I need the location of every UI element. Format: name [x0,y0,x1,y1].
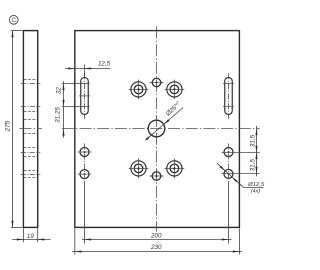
centre hole &#216;25 [148,120,165,137]
dimension 275 (left height) [12,31,14,228]
dimension 19 (side view width) [22,228,24,242]
extension lines down to 200 dim [84,181,86,244]
side view hole centerline y=174.5 [21,174,41,176]
side view hidden hole edge line y=177.5 [24,177,37,179]
side view hole centerline y=83.5 [21,83,41,85]
side view outline [23,31,37,228]
svg-text:12,5: 12,5 [98,60,111,67]
counterbored mounting hole at (174.4,168.4) with centermark [167,161,182,176]
side view main horizontal centerline [20,128,42,130]
front view plate outline [75,31,240,228]
right slot [225,77,233,114]
side view hidden hole edge line y=79.5 [24,79,37,81]
dimension 200 (bottom) [82,239,231,241]
svg-text:200: 200 [150,232,162,239]
side view hidden hole edge line y=147.5 [24,147,37,149]
side view hole centerline y=152.5 [21,152,41,154]
main vertical centerline [156,27,158,232]
dimension chain 32 / 31,25 (left) [62,83,90,85]
svg-text:32: 32 [56,87,63,95]
left slot mid tick [79,95,90,97]
right 4x holes ticks + extension to dim [222,152,260,154]
copyright symbol [9,15,18,24]
side view hidden hole edge line y=133.5 [24,133,37,135]
svg-text:Ø12,5: Ø12,5 [247,182,265,188]
side view hole centerline y=106.5 [21,106,41,108]
top small hole [152,78,160,86]
svg-text:Ø25H7: Ø25H7 [163,100,182,118]
side view hidden hole edge line y=170.5 [24,170,37,172]
svg-text:(4x): (4x) [251,189,260,195]
svg-text:C: C [11,17,16,24]
right slot centerline [228,73,230,118]
&#216;12,5 hole at (84.5,152.0) [80,148,89,157]
left 4x holes ticks [78,151,92,153]
counterbored mounting hole at (174.4,89.4) with centermark [167,82,182,97]
counterbored mounting hole at (138.5,89.4) with centermark [131,82,146,97]
dimension 12,5 (top left) [84,65,86,77]
svg-text:31,5: 31,5 [249,134,256,147]
leader &#216;12,5 (4x) [217,163,244,187]
left slot centerline [84,73,86,118]
right slot arc-center ticks [223,83,234,85]
svg-text:230: 230 [150,244,162,251]
svg-text:31,5: 31,5 [249,159,256,172]
counterbored mounting hole at (138.5,168.4) with centermark [131,161,146,176]
bottom small hole [152,172,161,181]
side view hidden hole edge line y=111.5 [24,111,37,113]
&#216;12,5 hole at (228.5,173.9) [224,169,233,178]
&#216;12,5 hole at (84.5,174.1) [80,170,89,179]
left slot [81,77,89,114]
centre hole leader &#216;25 H7 [145,108,183,141]
main horizontal centerline [62,128,260,130]
svg-text:31,25: 31,25 [54,107,61,123]
dimension 230 (bottom) [74,228,76,254]
vertical centerlines through 4x holes [84,144,86,182]
svg-text:275: 275 [4,120,11,132]
svg-text:19: 19 [27,233,35,240]
&#216;12,5 hole at (228.5,152.0) [224,148,233,157]
dimension chain 31,5 / 31,5 (right) [256,126,258,176]
side view hidden hole edge line y=156.5 [24,156,37,158]
side view hidden hole edge line y=119.5 [24,119,37,121]
